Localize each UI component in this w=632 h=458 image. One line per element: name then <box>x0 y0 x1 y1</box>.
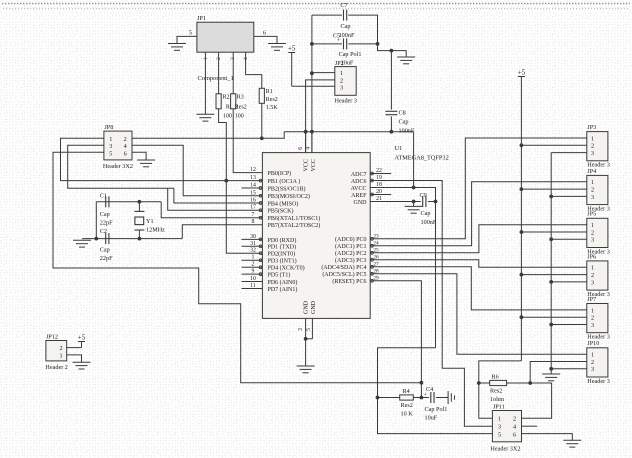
svg-text:AREF: AREF <box>351 193 367 199</box>
connector JP5 body <box>587 218 608 247</box>
connector JP8 body <box>104 131 132 160</box>
node junction VCC rail / pin4 <box>310 130 314 134</box>
svg-text:PB1 (OC1A ): PB1 (OC1A ) <box>268 178 301 185</box>
svg-text:6: 6 <box>124 150 127 157</box>
wire JP8.3 drop to PB4 <box>174 188 263 203</box>
U1 pin edge circles <box>259 172 373 282</box>
svg-text:1: 1 <box>591 135 594 142</box>
node junction Y1 top <box>138 200 142 204</box>
capacitor C2 <box>106 233 109 244</box>
svg-text:2: 2 <box>59 345 62 352</box>
wire U1 pin22 ADC7 stub <box>370 173 391 175</box>
wire gnd rail to JP5.3 <box>551 238 587 240</box>
ground header rail ground <box>542 374 560 381</box>
svg-text:Cap: Cap <box>100 247 110 254</box>
wire +5 to JP3.2 <box>521 144 586 146</box>
svg-text:JP11: JP11 <box>493 404 505 411</box>
svg-text:JP12: JP12 <box>46 334 58 341</box>
svg-text:5: 5 <box>189 29 192 36</box>
svg-text:Component_1: Component_1 <box>198 75 234 82</box>
svg-text:1: 1 <box>591 307 594 314</box>
power +5 +5 (headers) <box>518 68 526 76</box>
svg-text:PD0 (RXD): PD0 (RXD) <box>268 237 297 244</box>
svg-text:PD2(INT0): PD2(INT0) <box>268 251 296 258</box>
wire GND pin21 wire <box>370 201 421 203</box>
resistor R4 body <box>400 395 414 400</box>
svg-text:2: 2 <box>513 416 516 423</box>
svg-text:(ADC5/SCL) PC5: (ADC5/SCL) PC5 <box>322 271 366 278</box>
wire R6 to JP11.2 <box>522 383 552 418</box>
svg-text:R3: R3 <box>237 95 244 101</box>
wire U1 pin10 PD6 stub <box>242 281 263 283</box>
svg-text:PD5 (T1): PD5 (T1) <box>268 272 291 279</box>
svg-text:(ADC2) PC2: (ADC2) PC2 <box>335 250 367 257</box>
svg-text:C8: C8 <box>399 110 406 117</box>
ground JP12 ground <box>73 362 91 369</box>
svg-text:PB3(MOSI/OC2): PB3(MOSI/OC2) <box>268 193 310 200</box>
svg-text:C4: C4 <box>426 386 433 393</box>
ground JP1 pin6 ground <box>268 44 286 51</box>
sheet border dotted lines <box>2 3 630 5</box>
node junction C9 right / AVCC net <box>434 200 438 204</box>
svg-text:PD1 (TXD): PD1 (TXD) <box>268 244 297 251</box>
connector JP3 body <box>587 132 608 161</box>
ground JP8 pin6 ground <box>137 160 155 167</box>
svg-text:Res2: Res2 <box>266 97 278 103</box>
wire R3 to PB0 <box>233 109 262 173</box>
wire Y1 top stub <box>138 202 140 212</box>
wire PC5 to JP10.1 <box>370 274 587 354</box>
svg-text:Cap: Cap <box>421 210 431 217</box>
ground JP11 pin6 ground <box>563 440 581 447</box>
svg-text:10 K: 10 K <box>401 410 414 417</box>
node junction R2/PB1 <box>224 179 228 183</box>
svg-text:1: 1 <box>591 265 594 272</box>
node junction +5/JP5.2 <box>520 230 524 234</box>
wire PC4 to JP7.1 <box>370 267 587 310</box>
node junction R6 left / +5 / JP11.1 <box>477 381 481 385</box>
svg-text:R6: R6 <box>492 374 499 381</box>
wire PC2 to JP5.1 <box>370 225 587 253</box>
svg-text:3: 3 <box>109 143 112 150</box>
svg-text:GND: GND <box>354 200 368 206</box>
node junction RESET/R4/C4 <box>420 396 424 400</box>
svg-text:ADC6: ADC6 <box>351 179 367 185</box>
ground C4 ground (rotated) <box>448 391 454 404</box>
svg-text:(ADC4/SDA) PC4: (ADC4/SDA) PC4 <box>321 264 366 271</box>
node junction +5/JP7.2 <box>520 315 524 319</box>
node junction C8 top <box>390 49 394 53</box>
svg-text:PB5(SCK): PB5(SCK) <box>268 208 294 215</box>
svg-text:100: 100 <box>223 113 232 119</box>
svg-text:ADC7: ADC7 <box>351 172 367 178</box>
wire U1 pin1 PD3 stub <box>242 259 263 261</box>
svg-text:Y1: Y1 <box>146 218 154 225</box>
crystal Y1 <box>134 211 144 230</box>
wire JP8 pin3 staircase <box>68 145 174 188</box>
wire VCC pin4 stub <box>311 132 313 153</box>
wire +5 to JP2 pin3 <box>292 85 335 87</box>
node junction R6 right <box>528 381 532 385</box>
svg-text:1: 1 <box>109 136 112 143</box>
svg-text:JP6: JP6 <box>587 253 596 260</box>
wire R6 to JP10.2 <box>530 362 587 384</box>
svg-text:Header 3X2: Header 3X2 <box>103 163 133 170</box>
node junction AVCC <box>412 186 416 190</box>
wire JP1 pin3 to R3 <box>232 52 234 94</box>
svg-text:Cap: Cap <box>100 211 110 218</box>
svg-text:R1: R1 <box>266 89 273 95</box>
wire +5 header rail <box>520 77 522 361</box>
wire VCC rail <box>284 131 413 133</box>
svg-text:5: 5 <box>109 150 112 157</box>
svg-text:100nF: 100nF <box>399 128 415 135</box>
wire C8 bottom wire <box>390 116 392 131</box>
svg-text:PB2(SS/OC1B): PB2(SS/OC1B) <box>268 185 306 192</box>
svg-text:1: 1 <box>498 416 501 423</box>
wire PC6 RESET net <box>370 281 421 398</box>
svg-text:1: 1 <box>591 352 594 359</box>
svg-text:1: 1 <box>591 222 594 229</box>
wire XTAL1 drop to PB6 <box>161 202 262 218</box>
svg-text:JP7: JP7 <box>587 296 596 303</box>
IC U1 ATMEGA8_TQFP32 body <box>262 153 370 319</box>
wire JP12 pin1 wire <box>67 355 82 362</box>
svg-text:Cap: Cap <box>341 23 351 30</box>
svg-text:R2: R2 <box>223 95 230 101</box>
svg-text:2: 2 <box>591 187 594 194</box>
svg-text:3: 3 <box>591 237 594 244</box>
wire AVCC pin wire <box>370 188 435 348</box>
wire +5 to JP7.2 <box>521 316 586 318</box>
svg-text:(ADC0) PC0: (ADC0) PC0 <box>335 236 367 243</box>
svg-text:PD4 (XCK/T0): PD4 (XCK/T0) <box>268 265 305 272</box>
svg-text:JP3: JP3 <box>587 124 596 131</box>
ground JP1 pin5 ground <box>168 44 186 51</box>
wire XTAL2 rise to PB7 <box>182 225 262 239</box>
wire C7 top wire <box>312 14 342 16</box>
wire GND bridge <box>306 338 313 340</box>
svg-text:GND: GND <box>311 300 317 314</box>
wire JP2 pin1 wire <box>312 72 335 74</box>
svg-text:12MHz: 12MHz <box>146 227 165 234</box>
wire PC3 to JP6.1 <box>370 260 587 268</box>
wire C5 right wire <box>348 43 377 45</box>
wire JP8 pin2 wire <box>132 137 262 139</box>
connector JP7 body <box>587 304 608 333</box>
svg-text:Header 3: Header 3 <box>587 378 610 385</box>
wire ADC6 net <box>370 181 492 427</box>
svg-text:ATMEGA8_TQFP32: ATMEGA8_TQFP32 <box>395 155 449 162</box>
svg-text:1: 1 <box>340 70 343 77</box>
svg-text:1: 1 <box>59 352 62 359</box>
svg-text:1.5K: 1.5K <box>266 105 279 111</box>
wire gnd rail to JP6.3 <box>551 281 587 283</box>
wire U1 pin30 PD0 stub <box>242 238 263 240</box>
svg-text:3: 3 <box>498 424 501 431</box>
ground JP1 pin1 ground <box>196 114 214 121</box>
node junction +5/JP6.2 <box>520 273 524 277</box>
wire C5 left wire <box>312 43 342 45</box>
wire VCC rail jog to JP8.2 node <box>262 132 284 139</box>
svg-text:Cap Pol1: Cap Pol1 <box>425 406 448 413</box>
svg-text:C9: C9 <box>420 192 427 199</box>
svg-text:3: 3 <box>591 322 594 329</box>
svg-text:PB0(ICP): PB0(ICP) <box>268 170 292 177</box>
wire +5 to JP6.2 <box>521 274 586 276</box>
capacitor C9 <box>423 196 426 207</box>
node junction C5 left <box>310 42 314 46</box>
svg-text:2: 2 <box>591 272 594 279</box>
svg-text:6: 6 <box>263 29 266 36</box>
svg-text:PB7(XTAL2/TOSC2): PB7(XTAL2/TOSC2) <box>268 222 321 229</box>
wire R1 bottom to VCC node <box>261 103 263 138</box>
node junction GND pin / C9 left <box>412 200 416 204</box>
node junction gnd/JP4.3 <box>549 195 553 199</box>
node junction VCC rail / pin6 <box>304 130 308 134</box>
svg-text:2: 2 <box>124 136 127 143</box>
wire gnd rail to JP7.3 <box>551 324 587 326</box>
svg-text:GND: GND <box>303 300 309 314</box>
wire R2 to PB1 jog <box>219 109 263 253</box>
wire JP1 pin6 to ground <box>254 36 277 43</box>
node junction RESET/JP8.5 row <box>420 381 424 385</box>
svg-text:PB6(XTAL1/TOSC1): PB6(XTAL1/TOSC1) <box>268 215 321 222</box>
svg-text:100: 100 <box>235 113 244 119</box>
svg-text:4: 4 <box>124 143 127 150</box>
wire JP8.3 drop to PB5 <box>168 188 263 210</box>
svg-text:U1: U1 <box>395 145 403 152</box>
node junction gnd/JP10.3 <box>549 367 553 371</box>
wire JP11 pin4 stub <box>522 425 538 427</box>
connector JP12 body <box>46 341 67 361</box>
capacitor C5 <box>344 38 347 49</box>
resistor R3 body <box>231 94 236 109</box>
wire U1 pin11 PD7 stub <box>242 288 263 290</box>
capacitor C1 <box>106 196 109 207</box>
wire U1 pin14 PB2 stub <box>242 187 263 189</box>
svg-text:5: 5 <box>306 328 312 331</box>
svg-text:AVCC: AVCC <box>351 186 367 192</box>
svg-text:PD7 (AIN1): PD7 (AIN1) <box>268 286 298 293</box>
ground U1 ground <box>297 366 315 373</box>
svg-text:Cap Pol1: Cap Pol1 <box>339 51 362 58</box>
wire JP8 pin6 to ground <box>132 152 146 160</box>
svg-text:Res2: Res2 <box>490 387 502 394</box>
svg-text:VCC: VCC <box>311 159 317 171</box>
svg-text:1ohm: 1ohm <box>490 396 504 403</box>
wire JP1 pin2 to R2 <box>218 52 220 94</box>
capacitor C4 <box>431 392 434 403</box>
svg-text:Header 2: Header 2 <box>45 364 68 371</box>
wire PC0 to JP3.1 <box>370 138 587 239</box>
wire GND header rail <box>550 153 552 368</box>
wire VCC rail down to AVCC <box>413 132 415 188</box>
svg-text:(ADC3) PC3: (ADC3) PC3 <box>335 257 367 264</box>
svg-text:C1: C1 <box>100 192 107 199</box>
resistor R1 body <box>259 88 264 103</box>
node junction gnd/JP7.3 <box>549 323 553 327</box>
svg-text:JP8: JP8 <box>104 124 113 131</box>
svg-text:PD6 (AIN0): PD6 (AIN0) <box>268 279 298 286</box>
svg-text:4: 4 <box>513 424 516 431</box>
connector JP1 body <box>197 22 254 52</box>
wire GND down <box>305 339 307 366</box>
wire JP2 pin2 wire <box>306 80 335 153</box>
svg-text:22pF: 22pF <box>100 255 113 262</box>
svg-text:Res2: Res2 <box>235 104 247 110</box>
node junction gnd/JP5.3 <box>549 237 553 241</box>
node junction C8 bottom / VCC rail <box>390 130 394 134</box>
svg-text:6: 6 <box>513 431 516 438</box>
connector JP10 body <box>587 348 608 377</box>
svg-text:4: 4 <box>306 147 312 150</box>
svg-text:10uF: 10uF <box>425 414 438 421</box>
wire R6 right wire <box>507 382 531 384</box>
svg-text:VCC: VCC <box>303 159 309 171</box>
svg-text:R4: R4 <box>403 388 410 395</box>
svg-text:Header 3: Header 3 <box>335 98 358 105</box>
wire C9 right wire <box>428 201 436 203</box>
wire gnd rail stem <box>550 368 552 374</box>
svg-text:2: 2 <box>340 77 343 84</box>
wire VCC loop left vertical <box>311 15 313 153</box>
wire C4 right wire <box>436 397 448 399</box>
wire XTAL1 row <box>96 201 161 203</box>
svg-text:JP2: JP2 <box>335 60 344 67</box>
wire VCC pin6 stub <box>305 132 307 153</box>
wire R6 left wire <box>479 382 490 384</box>
power +5 +5 (JP12) <box>78 333 86 347</box>
wire JP1 pin1 down <box>204 52 206 114</box>
wire C1 left drop <box>95 202 97 239</box>
svg-text:3: 3 <box>340 85 343 92</box>
svg-text:JP5: JP5 <box>587 211 596 218</box>
svg-text:(ADC1) PC1: (ADC1) PC1 <box>335 243 367 250</box>
svg-text:2: 2 <box>591 315 594 322</box>
power +5 +5 (JP2) <box>288 44 296 86</box>
wire U1 pin20 AREF stub <box>370 194 391 196</box>
svg-text:C2: C2 <box>100 228 107 235</box>
connector JP6 body <box>587 261 608 290</box>
node junction +5/JP3.2 <box>520 143 524 147</box>
wire gnd branch from C5 loop <box>378 44 407 57</box>
wire +5 to JP5.2 <box>521 231 586 233</box>
node junction C2 left <box>94 237 98 241</box>
connector JP2 body <box>335 67 356 96</box>
svg-text:JP1: JP1 <box>197 15 206 22</box>
connector JP4 body <box>587 175 608 204</box>
svg-text:100nF: 100nF <box>339 32 355 39</box>
wire +5 branch to R6 <box>479 361 522 418</box>
svg-text:2: 2 <box>591 229 594 236</box>
wire PC1 to JP4.1 <box>370 182 587 246</box>
node junction C5 right / gnd branch <box>376 42 380 46</box>
wire GND pin3 stub <box>305 318 307 338</box>
svg-text:3: 3 <box>591 150 594 157</box>
wire JP8 pin5 to RESET row <box>53 152 421 382</box>
svg-text:(RESET) PC6: (RESET) PC6 <box>332 278 366 285</box>
svg-text:5: 5 <box>498 431 501 438</box>
wire U1 pin9 PD5 stub <box>242 273 263 275</box>
svg-text:2: 2 <box>591 143 594 150</box>
wire gnd rail to JP4.3 <box>551 195 587 197</box>
resistor R2 body <box>216 94 221 109</box>
wire C9 gnd stem <box>413 202 415 207</box>
wire AVCC net to JP11 pin5 <box>378 348 493 434</box>
svg-text:3: 3 <box>298 328 304 331</box>
wire XTAL2 row <box>82 238 182 240</box>
wire JP1 pin4 to R1 <box>246 52 262 88</box>
svg-text:2: 2 <box>591 359 594 366</box>
svg-text:3: 3 <box>591 366 594 373</box>
wire U1 pin31 PD1 stub <box>242 245 263 247</box>
wire JP8 pin1 to PB1 <box>61 138 263 180</box>
svg-text:+5: +5 <box>78 333 86 341</box>
ground crystal ground <box>73 240 91 247</box>
svg-text:JP4: JP4 <box>587 168 596 175</box>
svg-text:3: 3 <box>591 194 594 201</box>
node junction R1/JP8.2/VCC <box>260 136 264 140</box>
wire R4 left wire <box>378 397 400 399</box>
wire JP1 pin5 to ground <box>177 36 197 43</box>
svg-text:JP10: JP10 <box>587 340 599 347</box>
ground top middle ground <box>397 57 415 64</box>
wire JP8 pin4 to PB3 <box>132 145 262 196</box>
wire GND pin5 stub <box>311 318 313 338</box>
node junction gnd/JP6.3 <box>549 280 553 284</box>
wire R4 right wire <box>413 397 421 399</box>
svg-text:22pF: 22pF <box>100 220 113 227</box>
node junction JP2 pin1 <box>310 71 314 75</box>
capacitor C7 <box>344 10 347 21</box>
svg-text:3: 3 <box>591 279 594 286</box>
wire gnd rail to JP10.3 <box>551 368 587 370</box>
wire Y1 bottom stub <box>138 230 140 239</box>
svg-text:C7: C7 <box>340 2 347 9</box>
resistor R6 body <box>490 380 507 385</box>
svg-text:1: 1 <box>591 179 594 186</box>
svg-text:100nF: 100nF <box>421 219 437 226</box>
svg-text:6: 6 <box>298 147 304 150</box>
wire JP11 pin6 to ground <box>522 434 573 441</box>
wire JP12 pin2 wire <box>67 347 82 349</box>
wire U1 pin2 PD4 stub <box>242 266 263 268</box>
node junction Y1 bottom <box>138 237 142 241</box>
svg-text:Header 3X2: Header 3X2 <box>490 445 520 452</box>
svg-text:PB4 (MISO): PB4 (MISO) <box>268 200 299 207</box>
wire gnd rail to JP3.3 <box>551 152 587 154</box>
svg-text:Cap: Cap <box>399 119 409 126</box>
wire C4 left wire <box>421 397 429 399</box>
svg-text:Res2: Res2 <box>401 402 413 409</box>
wire C8 top wire <box>390 51 392 110</box>
node junction R4 left <box>376 396 380 400</box>
node junction GND pins <box>304 337 308 341</box>
svg-text:+5: +5 <box>518 68 526 76</box>
ground C9 ground <box>405 206 423 213</box>
node junction +5/JP4.2 <box>520 187 524 191</box>
wire +5 to JP4.2 <box>521 188 586 190</box>
wire C7 right wire <box>348 15 377 44</box>
svg-text:PD3 (INT1): PD3 (INT1) <box>268 258 297 265</box>
svg-text:+5: +5 <box>288 44 296 52</box>
connector JP11 body <box>492 411 521 442</box>
capacitor C8 <box>385 111 397 114</box>
